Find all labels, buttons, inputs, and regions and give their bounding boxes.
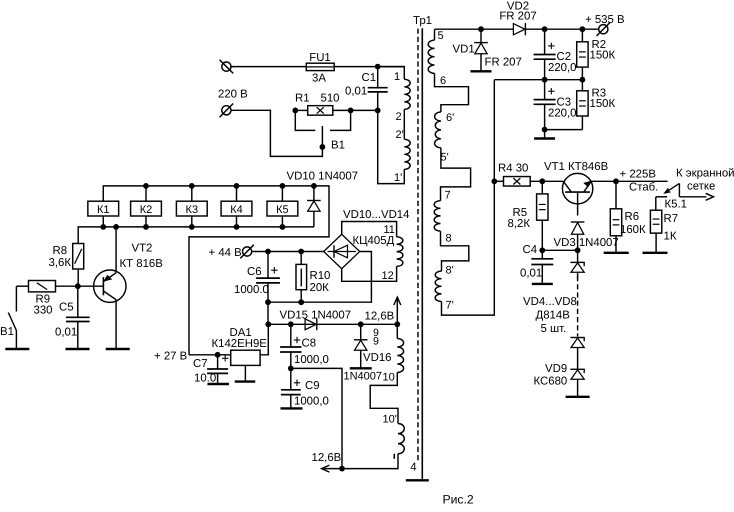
svg-text:R4 30: R4 30 [498, 163, 528, 175]
terminal: 220V input bottom pin [222, 106, 231, 115]
svg-text:7': 7' [446, 300, 454, 312]
svg-text:VD16: VD16 [363, 352, 392, 364]
node: K1 bottom bus [100, 224, 106, 230]
node A junction (C1 top / primary 1) [375, 64, 381, 70]
label winding end prime [393, 454, 395, 459]
svg-text:К4: К4 [230, 204, 243, 216]
node: C8/C9 rail junction bottom [339, 466, 345, 472]
svg-text:C4: C4 [523, 244, 538, 256]
transistor VT2 KT816V [94, 270, 126, 302]
diode VD2 FR207 [524, 23, 526, 35]
capacitor C1 0.01 [377, 67, 379, 88]
node: K4 top bus [234, 183, 240, 189]
wire: bottom terminal to switch B1 [231, 110, 322, 156]
svg-text:11: 11 [384, 224, 395, 236]
terminal: +535V [599, 25, 608, 34]
svg-text:0,01: 0,01 [520, 268, 542, 280]
ground: C9 [281, 407, 303, 409]
svg-text:R6: R6 [625, 211, 640, 223]
capacitor C8 1000.0 [290, 324, 292, 347]
svg-text:Тр1: Тр1 [413, 15, 432, 27]
tap 10 step wire [370, 373, 398, 424]
wire: +27V feed to DA1 [189, 354, 231, 356]
relay coil K5 [267, 201, 298, 216]
node: K3 top bus [189, 183, 195, 189]
wire: R1 right to node B [351, 109, 378, 111]
wire: VT1 emitter to +225V rail [591, 180, 668, 182]
svg-text:1N4007: 1N4007 [344, 371, 383, 383]
switch B1 actuator [321, 126, 323, 147]
wire: C8 bottom rail to bottom arrow wire [291, 368, 342, 468]
wire: top terminal to fuse FU1 [231, 66, 306, 68]
svg-text:Рис.2: Рис.2 [443, 493, 474, 507]
svg-text:VD10...VD14: VD10...VD14 [343, 209, 409, 221]
capacitor C5 0.01 [77, 286, 79, 316]
wire: VD2 to +535V terminal [545, 28, 599, 30]
wire: C4 to VD3 bottom [542, 249, 577, 251]
ground: R7 [643, 252, 668, 254]
polarity + C3 [548, 90, 554, 92]
node: R3 top [580, 77, 586, 83]
ground: VD16 [350, 367, 372, 369]
node: VT2 collector on bus [113, 224, 119, 230]
svg-text:VD15 1N4007: VD15 1N4007 [280, 310, 352, 322]
wire: R4 to VT1 collector [530, 180, 563, 182]
node: C6 top [265, 249, 271, 255]
diode VD16 1N4007 [360, 324, 362, 340]
bridge rectifier VD10...VD14 KC405D diamond [324, 234, 360, 268]
capacitor C3 220.0 [544, 80, 546, 100]
node: DA1 out junction [265, 321, 271, 327]
regulator DA1 K142EN9E [231, 350, 260, 365]
wire: R9 to switch B1b [16, 285, 28, 287]
node: K5 top bus [280, 183, 286, 189]
ground: HV bottom [544, 130, 546, 138]
svg-text:8,2К: 8,2К [508, 218, 531, 230]
svg-text:330: 330 [34, 305, 53, 317]
winding 7-8 [434, 201, 440, 231]
node: R5 top [539, 178, 545, 184]
relay coil K4 [221, 201, 252, 216]
node: K2 top bus [143, 183, 149, 189]
node: R10 bottom [298, 299, 304, 305]
capacitor C7 10.0 [217, 355, 219, 369]
svg-text:VD9: VD9 [545, 363, 567, 375]
ground: B1 [5, 348, 29, 350]
svg-text:сетке: сетке [687, 181, 715, 193]
zener VD8 [570, 337, 584, 339]
node: K2 bottom bus [143, 224, 149, 230]
node: VD3/VD4 junction [575, 247, 581, 253]
svg-text:КТ 816В: КТ 816В [120, 258, 163, 270]
ground: C4 [532, 283, 553, 285]
svg-text:6: 6 [440, 75, 446, 87]
terminal: +44V [243, 247, 252, 256]
svg-text:8': 8' [446, 265, 454, 277]
tap 5p step wire [441, 148, 471, 201]
wire: HV bottom rail [545, 129, 583, 131]
node: R1 left [292, 108, 298, 114]
svg-text:+ 225В: + 225В [620, 169, 656, 181]
svg-text:1К: 1К [664, 231, 677, 243]
node B junction (C1 bottom / primary 1') [375, 108, 381, 114]
zener VD9 KS680 [570, 368, 584, 370]
wire: relay top bus [103, 186, 329, 355]
svg-text:12: 12 [382, 270, 394, 282]
svg-text:К142ЕН9Е: К142ЕН9Е [212, 338, 268, 350]
svg-text:20К: 20К [310, 282, 330, 294]
node: winding 9 top [394, 321, 400, 327]
ground: C7 [207, 383, 229, 385]
diode VD15 1N4007 [316, 318, 318, 330]
ground: DA1 [244, 365, 246, 381]
svg-text:9: 9 [373, 336, 379, 348]
wire: winding 1p bottom to node B [378, 110, 405, 183]
svg-text:C8: C8 [302, 338, 317, 350]
wire: relay bottom bus [78, 227, 314, 244]
resistor R2 150K [581, 29, 583, 42]
svg-text:12,6В: 12,6В [365, 311, 395, 323]
svg-text:+ 535 В: + 535 В [585, 14, 625, 26]
node: R4 tap on mid bus [491, 178, 497, 184]
svg-text:10: 10 [383, 372, 395, 384]
wire: mid rail C2/C3 [494, 79, 582, 81]
svg-text:C6: C6 [247, 266, 262, 278]
svg-text:2': 2' [396, 129, 404, 141]
winding straight segment 2-2p [403, 109, 405, 139]
polarity + C6 [271, 269, 277, 271]
svg-text:5 шт.: 5 шт. [541, 323, 567, 335]
svg-text:VT2: VT2 [132, 243, 153, 255]
svg-text:R7: R7 [664, 213, 679, 225]
svg-text:7: 7 [445, 190, 451, 202]
svg-text:1000.0: 1000.0 [234, 284, 269, 296]
node: VD1 top [478, 26, 484, 32]
svg-text:К5: К5 [276, 204, 289, 216]
ground: VD1 anode bar [471, 70, 492, 72]
node: HV bottom [542, 127, 548, 133]
node: C2 top [542, 26, 548, 32]
switch B1 contacts bracket right [330, 110, 351, 130]
node: C4 top [539, 247, 545, 253]
switch B1 contacts bracket left [295, 110, 315, 130]
svg-text:VD4...VD8: VD4...VD8 [523, 296, 577, 308]
node: VD16 top [358, 321, 364, 327]
svg-text:220,0: 220,0 [548, 108, 577, 120]
node: R1 right [348, 108, 354, 114]
svg-text:К2: К2 [140, 204, 153, 216]
node: C6 bottom [265, 299, 271, 305]
fuse FU1 3A [306, 63, 334, 70]
wire: winding end to 12.6V bottom [324, 454, 398, 469]
node: VD10 top [311, 183, 317, 189]
svg-text:C9: C9 [305, 380, 320, 392]
svg-text:0,01: 0,01 [55, 327, 77, 339]
svg-text:R10: R10 [310, 270, 331, 282]
svg-text:1000,0: 1000,0 [294, 396, 329, 408]
node: K5 bottom bus [280, 224, 286, 230]
svg-text:+ 44 В: + 44 В [209, 247, 242, 259]
svg-text:VD1: VD1 [453, 44, 475, 56]
svg-text:1: 1 [394, 71, 400, 83]
svg-text:FU1: FU1 [309, 52, 331, 64]
svg-text:Стаб.: Стаб. [629, 182, 658, 194]
capacitor C4 0.01 [541, 250, 543, 258]
resistor R4 30 (fusible) [504, 177, 531, 187]
svg-text:160К: 160К [620, 224, 646, 236]
svg-text:0,01: 0,01 [345, 86, 367, 98]
tap 6 step wire [435, 73, 469, 112]
svg-text:5': 5' [441, 152, 449, 164]
wire: winding 7p to mid bus [442, 80, 495, 315]
svg-text:R1: R1 [295, 93, 310, 105]
svg-text:КЦ405Д: КЦ405Д [353, 235, 395, 247]
node: R6 top [613, 178, 619, 184]
ground: R6 [604, 252, 629, 254]
tap 8 step wire [441, 231, 469, 271]
relay coil K1 [88, 201, 119, 216]
wire: DA1 output up [260, 324, 268, 355]
svg-text:+ 27 В: + 27 В [154, 351, 187, 363]
switch B1 (lower pole) [15, 286, 17, 311]
wire: bridge minus loop [268, 252, 371, 303]
svg-text:VT1: VT1 [544, 161, 565, 173]
svg-text:12,6В: 12,6В [312, 452, 342, 464]
wire: winding 5 top to HV rail [434, 29, 436, 40]
svg-text:1': 1' [394, 172, 402, 184]
svg-text:КС680: КС680 [534, 376, 568, 388]
node: K3 bottom bus [189, 224, 195, 230]
node: B1 bottom [320, 144, 326, 150]
winding 2p-1p (primary) [404, 139, 410, 169]
relay coil K3 [176, 201, 207, 216]
svg-text:C5: C5 [59, 302, 74, 314]
svg-text:150К: 150К [590, 98, 616, 110]
svg-text:8: 8 [446, 233, 452, 245]
svg-text:КТ846В: КТ846В [568, 161, 608, 173]
resistor R5 8.2K [541, 181, 543, 194]
resistor R1 510 (fusible) [308, 106, 333, 116]
winding 6p-5p [435, 112, 441, 148]
wire: +44V rail [252, 251, 324, 253]
diode VD1 FR207 [480, 29, 482, 42]
svg-text:220 В: 220 В [218, 89, 248, 101]
svg-text:C7: C7 [193, 358, 208, 370]
svg-text:R8: R8 [53, 245, 68, 257]
resistor R9 330 [29, 281, 56, 292]
polarity + C8 [294, 339, 300, 341]
resistor R3 150K [581, 80, 583, 91]
svg-text:3А: 3А [312, 73, 326, 85]
svg-text:10.0: 10.0 [194, 373, 216, 385]
node: C7 top [215, 352, 221, 358]
svg-text:К3: К3 [186, 204, 199, 216]
winding 9-10 [396, 324, 398, 338]
resistor R6 160K [615, 181, 617, 209]
svg-text:150К: 150К [590, 50, 616, 62]
polarity + C7/DA1 [222, 357, 228, 359]
svg-text:2: 2 [396, 111, 402, 123]
diode VD3 1N4007 [571, 221, 585, 223]
node: C8 bottom [288, 366, 294, 372]
capacitor C9 1000.0 [290, 368, 292, 389]
transistor VT1 KT846V [562, 173, 592, 203]
polarity + C9 [294, 382, 300, 384]
wire: fuse to node A [334, 66, 404, 68]
svg-text:К экранной: К экранной [676, 168, 734, 180]
diode VD10 1N4007 [313, 186, 315, 201]
terminal arrow 12.6V up [396, 299, 398, 325]
svg-text:220,0: 220,0 [548, 62, 577, 74]
ground: zener chain [566, 396, 590, 398]
svg-text:К5.1: К5.1 [665, 199, 687, 211]
node: R10 top [298, 249, 304, 255]
winding 5-6 [428, 40, 434, 73]
relay contact K5.1 [666, 183, 679, 192]
ground: transformer screen [406, 479, 429, 481]
dashed wire: zener chain VD4...VD8 [577, 276, 579, 337]
wire: base node to VT2 [78, 285, 104, 287]
svg-text:В1: В1 [331, 140, 345, 152]
transformer core dashed line [417, 29, 419, 463]
svg-text:510: 510 [320, 93, 339, 105]
svg-text:FR 207: FR 207 [485, 57, 522, 69]
svg-text:4: 4 [410, 462, 416, 474]
winding 11-12 [397, 237, 403, 267]
wire: node A to winding 1 top [378, 67, 405, 80]
svg-text:C1: C1 [362, 72, 377, 84]
ground: C5 [66, 348, 90, 350]
svg-text:5: 5 [438, 30, 444, 42]
wire: bus to R4 [494, 180, 503, 182]
capacitor C6 1000.0 [267, 252, 269, 279]
transformer screen line (4) [421, 28, 423, 479]
svg-text:3,6К: 3,6К [49, 257, 72, 269]
terminal: 220V input top pin [222, 62, 231, 71]
terminal arrow 12.6V bottom [322, 465, 330, 472]
node: VT2 base node [75, 283, 81, 289]
winding 8p-7p [435, 271, 441, 301]
svg-text:В1: В1 [0, 326, 14, 338]
node: R2 top [580, 26, 586, 32]
resistor R8 3.6K [73, 244, 84, 270]
svg-text:10': 10' [383, 414, 397, 426]
svg-text:VD10 1N4007: VD10 1N4007 [287, 171, 359, 183]
svg-text:6': 6' [446, 112, 454, 124]
resistor R7 1K [650, 210, 661, 233]
polarity + C2 [548, 45, 554, 47]
node: K4 bottom bus [234, 224, 240, 230]
svg-text:VD3 1N4007: VD3 1N4007 [554, 237, 619, 249]
relay coil K2 [131, 201, 162, 216]
svg-text:Д814В: Д814В [536, 310, 570, 322]
capacitor C2 220.0 [544, 29, 546, 54]
svg-text:1000,0: 1000,0 [294, 354, 329, 366]
winding 1-2 (primary) [404, 79, 410, 109]
zener VD4 [570, 261, 584, 263]
winding 10p-end [398, 424, 404, 454]
wire: 12.6V rail [268, 323, 397, 325]
ground: VT2 [106, 348, 130, 350]
svg-text:FR 207: FR 207 [499, 11, 536, 23]
node: C3 top [542, 77, 548, 83]
bridge AC loop to winding 11-12 [342, 222, 397, 237]
wire: C6 bottom down to 12.6 node [267, 302, 269, 324]
node: C8 top [288, 321, 294, 327]
svg-text:К1: К1 [97, 204, 110, 216]
wire: HV rail winding5 to VD2 [435, 28, 514, 30]
resistor R10 20K [300, 252, 302, 265]
